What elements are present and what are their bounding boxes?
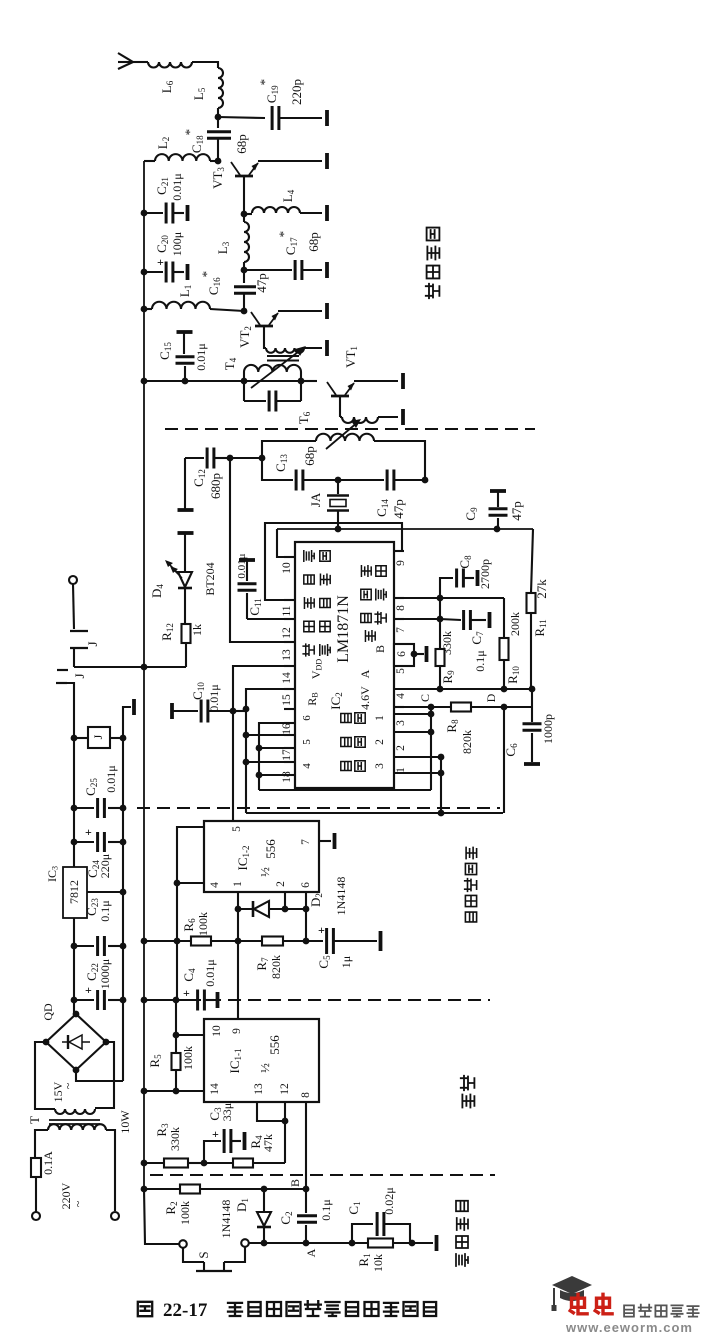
switch J2 bbox=[57, 669, 68, 671]
svg-text:330k: 330k bbox=[440, 631, 454, 655]
capacitor C4 0.01u bbox=[141, 997, 148, 1004]
switch J1 bbox=[73, 584, 74, 629]
key return bus lower bbox=[246, 812, 503, 814]
IC1-2 pin7 ground bbox=[319, 840, 331, 842]
wire L6 to L5 bbox=[192, 62, 218, 68]
svg-text:47p: 47p bbox=[391, 499, 406, 519]
svg-text:4: 4 bbox=[209, 882, 221, 888]
svg-text:+: + bbox=[85, 983, 92, 997]
svg-text:0.1μ: 0.1μ bbox=[319, 1199, 333, 1220]
svg-text:0.01μ: 0.01μ bbox=[207, 684, 221, 711]
svg-text:S: S bbox=[196, 1251, 211, 1258]
svg-text:1: 1 bbox=[374, 715, 386, 721]
svg-text:+: + bbox=[212, 1127, 219, 1141]
svg-text:BT204: BT204 bbox=[203, 562, 217, 595]
diode D1 1N4148 bbox=[263, 1189, 265, 1212]
IC1-2 pin2 stub bbox=[284, 892, 286, 909]
IC2 left pin stubs bbox=[284, 556, 295, 558]
svg-text:0.01μ: 0.01μ bbox=[236, 553, 248, 578]
emitter wire VT1 bbox=[354, 380, 398, 382]
crystal JA bbox=[337, 480, 339, 494]
svg-text:J: J bbox=[91, 734, 105, 739]
svg-text:47k: 47k bbox=[261, 1134, 275, 1152]
ground at C19 bbox=[325, 110, 329, 126]
node VT3 base bbox=[215, 158, 222, 165]
IC1-1 556 block bbox=[204, 1019, 319, 1102]
wire pin16 down bbox=[259, 723, 294, 790]
capacitor C2 0.1u bbox=[305, 1189, 307, 1213]
capacitor C14 47p bbox=[338, 479, 384, 481]
ground at T4 primary bbox=[325, 340, 329, 356]
svg-text:4: 4 bbox=[301, 763, 313, 769]
wire pin2 pin1 bbox=[394, 756, 441, 758]
svg-text:1μ: 1μ bbox=[339, 956, 353, 968]
svg-text:4.6V: 4.6V bbox=[358, 686, 372, 710]
capacitor C19 220p bbox=[271, 106, 274, 130]
inductor L5 bbox=[218, 68, 223, 108]
svg-text:D: D bbox=[484, 693, 498, 702]
wire pin4 to R8 bbox=[394, 706, 431, 708]
svg-text:1k: 1k bbox=[190, 624, 204, 636]
wire node to pin13 bbox=[230, 458, 294, 642]
IC2 inner text left column bbox=[304, 551, 314, 561]
svg-text:12: 12 bbox=[279, 1083, 291, 1095]
transistor VT1 bbox=[301, 380, 317, 382]
bridge dc minus path bbox=[76, 1070, 123, 1081]
capacitor C5 1u bbox=[325, 928, 328, 954]
section label jiekou dianlu bbox=[456, 1254, 468, 1266]
IC1-2 556 block bbox=[204, 821, 319, 892]
svg-text:0.02μ: 0.02μ bbox=[382, 1187, 396, 1214]
svg-text:16: 16 bbox=[281, 723, 293, 735]
ground at T6 primary bbox=[401, 409, 405, 425]
svg-text:9: 9 bbox=[231, 1028, 243, 1034]
svg-text:13: 13 bbox=[253, 1083, 265, 1095]
transformer T4 secondary winding bbox=[244, 365, 301, 372]
resistor R3 330k bbox=[141, 1160, 148, 1167]
wire pin extra left bbox=[246, 761, 294, 763]
IC2 inner text right columns bbox=[361, 566, 371, 576]
svg-text:J: J bbox=[72, 673, 87, 678]
svg-text:C: C bbox=[418, 694, 432, 702]
oscillator rail bbox=[277, 528, 533, 530]
section separator encoder bbox=[137, 807, 500, 809]
svg-text:2: 2 bbox=[275, 881, 287, 887]
watermark site name bbox=[624, 1305, 634, 1316]
ground at VT1 emitter bbox=[401, 373, 405, 389]
capacitor C12 680p bbox=[178, 508, 194, 512]
svg-text:14: 14 bbox=[209, 1083, 221, 1095]
ground at VT2 emitter bbox=[325, 303, 329, 319]
svg-text:220p: 220p bbox=[289, 79, 304, 105]
svg-text:6: 6 bbox=[300, 882, 312, 888]
svg-text:QD: QD bbox=[41, 1003, 55, 1021]
svg-text:220μ: 220μ bbox=[98, 854, 112, 878]
transformer T6 primary winding bbox=[340, 416, 342, 418]
section separator RF bbox=[165, 428, 535, 430]
node A wire bbox=[249, 1242, 433, 1244]
wire pin14 to C10 node bbox=[233, 666, 294, 711]
svg-text:7812: 7812 bbox=[67, 880, 81, 904]
svg-text:2: 2 bbox=[374, 739, 386, 745]
svg-text:+: + bbox=[85, 825, 92, 839]
watermark chongchong red bbox=[570, 1294, 587, 1314]
capacitor C8 2700p bbox=[437, 595, 444, 602]
T6 tuning arrow bbox=[326, 422, 358, 449]
collector wire VT1 bbox=[339, 397, 341, 417]
svg-text:200k: 200k bbox=[508, 612, 522, 636]
wire J to rail bbox=[74, 666, 186, 668]
svg-text:4: 4 bbox=[395, 693, 407, 699]
capacitor C18 68p bbox=[217, 117, 219, 128]
wire IC2 top to IC1-2 bbox=[232, 711, 234, 821]
section label huanchong gonglv bbox=[426, 284, 440, 298]
svg-text:B: B bbox=[288, 1179, 302, 1187]
svg-text:JA: JA bbox=[308, 492, 323, 507]
svg-text:½: ½ bbox=[257, 1063, 272, 1073]
node VT2 base bbox=[241, 308, 248, 315]
svg-text:820k: 820k bbox=[269, 955, 283, 979]
node C12/T6 bbox=[227, 455, 234, 462]
IC2 right pin stubs bbox=[394, 550, 404, 552]
LED D4 BT204 bbox=[178, 531, 194, 535]
svg-text:6: 6 bbox=[301, 715, 313, 721]
key return bus upper bbox=[259, 789, 431, 791]
terminal circle top bbox=[69, 576, 77, 584]
svg-text:1: 1 bbox=[232, 881, 244, 887]
svg-text:68p: 68p bbox=[234, 134, 249, 154]
svg-text:5: 5 bbox=[395, 668, 407, 674]
pin11-pin9 link bbox=[265, 523, 402, 600]
svg-text:0.01μ: 0.01μ bbox=[170, 173, 184, 200]
svg-text:LM1871N: LM1871N bbox=[335, 595, 352, 663]
svg-text:47p: 47p bbox=[509, 501, 524, 521]
svg-text:556: 556 bbox=[267, 1035, 282, 1055]
rail bottom RF row bbox=[144, 380, 316, 382]
svg-text:13: 13 bbox=[281, 649, 293, 661]
wire R7 node down to IC1-1 bbox=[237, 941, 239, 1019]
transformer T primary bbox=[48, 1124, 106, 1130]
svg-text:7: 7 bbox=[300, 839, 312, 845]
power rail B bbox=[122, 738, 124, 1081]
capacitor C22 1000u bbox=[71, 997, 78, 1004]
capacitor C11 0.01u bbox=[239, 558, 255, 562]
supply rail left bbox=[143, 161, 145, 1189]
svg-text:68p: 68p bbox=[302, 446, 317, 466]
resistor R10 200k bbox=[440, 597, 504, 599]
node L3/L4 top bbox=[241, 211, 248, 218]
svg-text:5: 5 bbox=[301, 739, 313, 745]
bias rail bbox=[394, 688, 532, 690]
svg-text:3: 3 bbox=[374, 763, 386, 769]
wire pin18 bbox=[259, 747, 294, 749]
inductor L4 bbox=[244, 213, 252, 215]
section label danwen bbox=[462, 1095, 474, 1108]
svg-text:½: ½ bbox=[257, 867, 272, 877]
capacitor C1 0.02u bbox=[352, 1224, 373, 1243]
svg-text:10: 10 bbox=[211, 1025, 223, 1037]
svg-text:0.1μ: 0.1μ bbox=[98, 900, 112, 921]
transformer T core bbox=[49, 1119, 100, 1121]
resistor R12 1k bbox=[182, 624, 191, 643]
svg-text:10: 10 bbox=[281, 562, 293, 574]
wire antenna to L6 bbox=[133, 61, 148, 63]
svg-text:A: A bbox=[358, 669, 372, 678]
wire node to C19 bbox=[218, 117, 265, 118]
capacitor C9 47p bbox=[490, 489, 506, 493]
svg-text:6: 6 bbox=[396, 651, 408, 657]
resistor R8 820k bbox=[428, 704, 435, 711]
svg-text:22-17: 22-17 bbox=[163, 1300, 208, 1321]
svg-text:3: 3 bbox=[395, 720, 407, 726]
IC1-2 pin4/5 tie bbox=[177, 827, 204, 941]
wire mono link bbox=[176, 941, 178, 1000]
IC1-2 pin1 stub bbox=[237, 892, 239, 909]
transistor VT3 bbox=[235, 175, 253, 178]
relay supply bar bbox=[123, 707, 131, 738]
T4 core bbox=[267, 355, 299, 357]
capacitor C13 68p bbox=[262, 458, 293, 480]
wire L5 to node bbox=[217, 108, 219, 117]
capacitor C23 0.1u bbox=[71, 943, 78, 950]
resistor R11 27k bbox=[531, 529, 533, 593]
svg-text:0.01μ: 0.01μ bbox=[104, 765, 118, 792]
wire pins12/13 bbox=[257, 1102, 285, 1121]
resistor R4 47k bbox=[204, 1162, 233, 1164]
wire pin8 to node bbox=[394, 597, 440, 599]
svg-text:8: 8 bbox=[300, 1092, 312, 1098]
inductor L6 bbox=[148, 62, 192, 68]
svg-text:68p: 68p bbox=[306, 232, 321, 252]
inductor L3 bbox=[243, 214, 245, 222]
svg-text:8: 8 bbox=[395, 605, 407, 611]
svg-text:100k: 100k bbox=[178, 1201, 192, 1225]
svg-text:B: B bbox=[373, 645, 387, 653]
emitter wire VT3 bbox=[258, 160, 322, 162]
wire D node down bbox=[503, 707, 505, 813]
svg-text:J: J bbox=[85, 641, 100, 646]
bridge rectifier QD bbox=[46, 1014, 106, 1070]
T4 tuning arrow bbox=[251, 349, 302, 388]
svg-text:33μ: 33μ bbox=[220, 1103, 234, 1121]
svg-text:1N4148: 1N4148 bbox=[334, 877, 348, 916]
svg-text:T: T bbox=[27, 1116, 42, 1124]
capacitor C6 1000p bbox=[531, 688, 533, 722]
collector wire VT3 bbox=[243, 177, 245, 213]
inductor L1 bbox=[141, 306, 148, 313]
ground at C17 bbox=[325, 262, 329, 278]
svg-text:+: + bbox=[157, 255, 164, 269]
capacitor C15 0.01u bbox=[177, 330, 193, 334]
svg-text:+: + bbox=[318, 923, 325, 937]
wire pin3 bbox=[430, 707, 432, 790]
T4 tank capacitor bbox=[244, 400, 266, 402]
ground at interface bbox=[435, 1235, 439, 1251]
capacitor C16 47p bbox=[243, 270, 245, 283]
svg-text:680p: 680p bbox=[208, 473, 223, 499]
mains terminals bbox=[32, 1212, 40, 1220]
transistor VT2 bbox=[255, 325, 273, 328]
inductor L2 bbox=[210, 160, 218, 162]
wire pin8 node B bbox=[305, 1102, 307, 1189]
wire pin17 bbox=[246, 734, 294, 736]
ground at VT3 emitter bbox=[325, 153, 329, 169]
svg-text:12: 12 bbox=[281, 627, 293, 639]
svg-text:0.1μ: 0.1μ bbox=[473, 650, 487, 671]
svg-text:14: 14 bbox=[281, 672, 293, 684]
resistor R9 330k bbox=[439, 619, 441, 649]
svg-text:1N4148: 1N4148 bbox=[219, 1200, 233, 1239]
svg-text:330k: 330k bbox=[168, 1127, 182, 1151]
capacitor C24 220u bbox=[71, 839, 78, 846]
fuse 0.1A bbox=[31, 1158, 41, 1177]
emitter wire VT2 bbox=[278, 310, 322, 312]
wire pin14 row bbox=[144, 1090, 204, 1092]
section label bianma tiaozhi bbox=[465, 912, 476, 922]
node L5/C18/C19 bbox=[215, 114, 222, 121]
svg-text:www.eeworm.com: www.eeworm.com bbox=[565, 1320, 693, 1334]
IC2 LM1871N block bbox=[295, 542, 394, 788]
IC2 channel rows bbox=[341, 713, 351, 722]
transformer T secondary bbox=[55, 1109, 95, 1114]
ground at L4 bbox=[325, 205, 329, 221]
svg-text:+: + bbox=[183, 986, 190, 1000]
svg-text:556: 556 bbox=[263, 839, 278, 859]
IC1-2 pin6 stub bbox=[305, 892, 307, 909]
svg-text:2: 2 bbox=[395, 745, 407, 751]
svg-text:0.01μ: 0.01μ bbox=[203, 959, 217, 986]
svg-text:47p: 47p bbox=[254, 273, 269, 293]
IC2 pin6 box bbox=[394, 644, 414, 666]
svg-text:5: 5 bbox=[231, 826, 243, 832]
wire pin15 down bbox=[246, 689, 294, 813]
svg-text:~: ~ bbox=[61, 1082, 75, 1089]
resistor R1 10k bbox=[368, 1239, 393, 1248]
diode D2 1N4148 bbox=[238, 908, 306, 910]
svg-text:18: 18 bbox=[281, 771, 293, 783]
power rail A bbox=[73, 738, 75, 1014]
svg-text:100μ: 100μ bbox=[170, 232, 184, 256]
capacitor C21 0.01u bbox=[141, 210, 148, 217]
capacitor C10 0.01u bbox=[170, 703, 174, 719]
resistor R2 100k bbox=[141, 1186, 148, 1193]
svg-text:7: 7 bbox=[395, 627, 407, 633]
bridge ac right path bbox=[95, 1042, 114, 1108]
capacitor C3 33u bbox=[204, 1141, 221, 1163]
svg-text:15: 15 bbox=[281, 694, 293, 706]
svg-text:2700p: 2700p bbox=[478, 559, 492, 589]
transformer T6 secondary winding bbox=[316, 434, 374, 441]
svg-text:0.01μ: 0.01μ bbox=[194, 343, 208, 370]
svg-text:11: 11 bbox=[281, 605, 293, 616]
resistor R5 100k bbox=[173, 1032, 180, 1039]
capacitor C7 0.1u bbox=[440, 619, 461, 620]
caption bbox=[138, 1302, 152, 1316]
svg-text:27k: 27k bbox=[534, 579, 549, 599]
capacitor C20 100u bbox=[141, 269, 148, 276]
svg-text:1000μ: 1000μ bbox=[98, 959, 112, 989]
resistor R6 100k bbox=[191, 937, 211, 946]
node JA/C13/C14 bbox=[335, 477, 342, 484]
regulator IC3 7812 bbox=[63, 867, 87, 918]
timing row wire bbox=[144, 940, 191, 942]
switch S bbox=[144, 1189, 179, 1244]
svg-text:~: ~ bbox=[71, 1200, 85, 1207]
svg-text:100k: 100k bbox=[196, 912, 210, 936]
capacitor C17 68p bbox=[244, 269, 292, 271]
wire pin7 to node bbox=[394, 618, 440, 620]
svg-text:A: A bbox=[304, 1248, 318, 1257]
bridge ac left path bbox=[35, 1042, 55, 1109]
section separator monostable bbox=[148, 999, 490, 1001]
svg-text:17: 17 bbox=[281, 749, 293, 761]
svg-text:10k: 10k bbox=[371, 1254, 385, 1272]
svg-text:9: 9 bbox=[395, 560, 407, 566]
svg-text:820k: 820k bbox=[460, 730, 474, 754]
node C16/C17 bbox=[241, 267, 248, 274]
svg-text:0.1A: 0.1A bbox=[41, 1151, 55, 1175]
svg-text:10W: 10W bbox=[118, 1110, 132, 1134]
antenna bbox=[118, 53, 133, 62]
svg-text:100k: 100k bbox=[181, 1046, 195, 1070]
section separator interface bbox=[150, 1174, 495, 1176]
IC3 ground link bbox=[87, 891, 123, 893]
transformer T4 primary winding bbox=[264, 327, 266, 348]
capacitor C25 0.01u bbox=[71, 805, 78, 812]
svg-text:1000p: 1000p bbox=[541, 714, 555, 744]
relay J box bbox=[71, 735, 78, 742]
resistor R7 820k bbox=[262, 937, 283, 946]
watermark logo cap bbox=[552, 1276, 592, 1294]
